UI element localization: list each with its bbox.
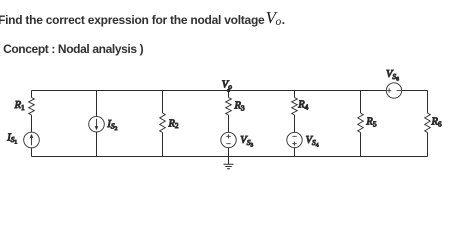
resistor R5 <box>358 113 364 133</box>
svg-text:IS2: IS2 <box>106 119 117 132</box>
voltage source VS3 <box>221 132 236 147</box>
svg-text:VS6: VS6 <box>386 69 399 82</box>
wire top rail <box>32 90 428 92</box>
wire bottom rail <box>32 156 428 158</box>
wire branch3 upper <box>162 91 164 114</box>
svg-text:R3: R3 <box>234 101 245 113</box>
wire branch1 upper <box>31 91 33 98</box>
voltage source VS4 <box>287 132 302 147</box>
wire branch1 lower <box>31 115 33 157</box>
current source IS1 <box>24 132 40 148</box>
resistor R6 <box>425 113 431 133</box>
wire branch7 upper <box>427 91 429 114</box>
wire branch6 upper <box>360 91 362 114</box>
resistor R3 <box>226 98 232 116</box>
node Vo dot <box>227 89 231 93</box>
wire branch2 <box>96 91 98 157</box>
svg-text:VS3: VS3 <box>240 135 253 148</box>
resistor R1 <box>29 98 35 116</box>
svg-text:R4: R4 <box>297 99 308 111</box>
title line 1 <box>0 14 285 26</box>
wire branch4 lower <box>228 115 230 157</box>
title line 2 <box>0 43 143 55</box>
svg-text:R1: R1 <box>14 100 25 112</box>
wire branch6 lower <box>360 133 362 157</box>
svg-text:VS4: VS4 <box>306 135 319 148</box>
voltage source VS6 <box>386 83 401 98</box>
wire branch4 upper <box>228 91 230 98</box>
wire branch3 lower <box>162 133 164 157</box>
wire branch5 upper <box>294 91 296 98</box>
wire branch7 lower <box>427 133 429 157</box>
svg-text:Vo: Vo <box>222 79 232 91</box>
wire branch5 lower <box>294 115 296 157</box>
svg-text:R6: R6 <box>431 116 442 128</box>
current source IS2 <box>89 116 105 132</box>
svg-text:R2: R2 <box>168 118 179 130</box>
svg-text:IS1: IS1 <box>6 132 17 145</box>
ground <box>224 157 234 169</box>
svg-text:R5: R5 <box>365 116 376 128</box>
resistor R4 <box>292 98 298 116</box>
resistor R2 <box>160 113 166 133</box>
